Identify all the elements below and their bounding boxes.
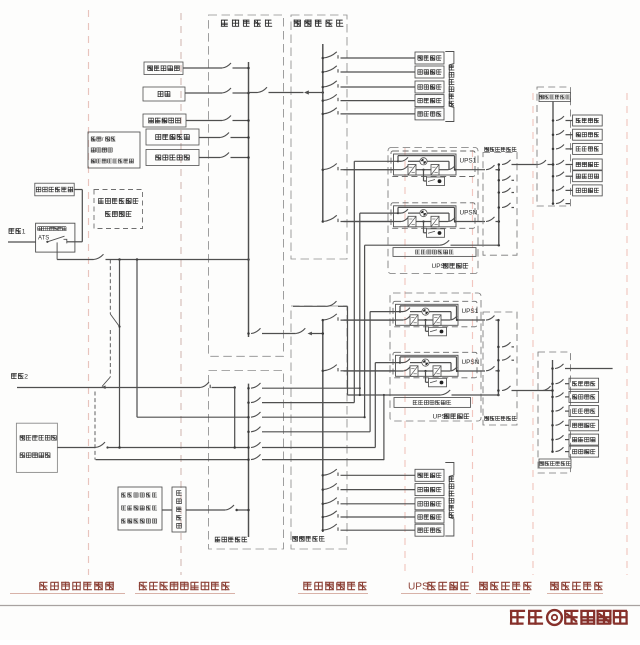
label LV cabinet bottom (215, 537, 247, 543)
wire LV row-447 parallel-box feed (57, 442, 375, 449)
UPS group lower dashed frame (390, 293, 481, 421)
zone underline (547, 593, 603, 595)
wire mains-1 into ATS (8, 241, 36, 243)
separator col7 (626, 93, 628, 575)
label vertical machine-room power upper (449, 65, 455, 107)
UPS U4 rectifier (344, 366, 419, 377)
branch sub-upper 5 (552, 172, 573, 178)
svg-text:UPSN: UPSN (460, 209, 478, 216)
wire runner R2 (359, 213, 361, 395)
svg-text:2: 2 (24, 373, 28, 380)
label ATS text (37, 226, 66, 241)
svg-text:UPS1: UPS1 (460, 158, 477, 165)
zone underline (135, 593, 235, 595)
load box lighting (143, 87, 185, 101)
UPS U4 inner box (396, 355, 459, 376)
wire LV row-402 to runner R1 (247, 397, 354, 403)
cabinet LV distribution upper (dashed) (209, 15, 284, 356)
spare breaker lower 2 (497, 356, 514, 362)
branch sub-lower 4 (551, 421, 569, 427)
breaker input-lower row 3 (322, 498, 415, 505)
zone underline (476, 593, 530, 595)
label output main upper (484, 147, 516, 152)
label output sub upper (boxed) (539, 93, 571, 102)
UPS U2 battery (424, 222, 445, 238)
label LV cabinet title top (221, 20, 272, 27)
load box lower 照明系统 (415, 484, 444, 496)
bus output main upper (498, 164, 500, 245)
ATS box (36, 223, 75, 252)
load box 其他用电 (415, 108, 444, 120)
load box lower 其他用电 (415, 524, 444, 536)
label output main lower (484, 416, 516, 421)
UPS U4 output breaker (441, 367, 485, 372)
cabinet input distribution lower (dashed) (291, 306, 347, 549)
cabinet output main lower (dashed) (483, 312, 517, 425)
UPS U3 rectifier (344, 315, 419, 326)
cabinet output main upper (dashed) (483, 153, 517, 256)
load box lower 空调系统 (415, 469, 444, 481)
bus LV cabinet upper (248, 62, 250, 337)
ATS switch (46, 236, 67, 259)
wire input-bus to UPS1 main (322, 164, 394, 171)
load box 主机用电 upper (573, 115, 603, 126)
UPS U2 inner box (394, 206, 457, 227)
label output sub lower (boxed) (539, 459, 571, 468)
load box 主机用电 lower (569, 378, 599, 389)
svg-text:UPS: UPS (408, 582, 429, 593)
watermark 头条@暖通南社 (510, 610, 628, 625)
branch sub-upper 2 (552, 130, 573, 136)
wire lower-bus to UPS1L main (322, 314, 396, 321)
branch sub-upper 6 (552, 186, 573, 192)
cabinet LV distribution lower (dashed) (209, 371, 284, 550)
wire LV row-431 to runner R4 (247, 427, 370, 433)
UPS U4 battery (426, 371, 447, 387)
wire mains-2 (17, 382, 236, 448)
zone 电源切换和低压配电 label2 (139, 582, 230, 591)
wire row ac-pump (183, 63, 250, 69)
svg-text:ATS: ATS (38, 236, 49, 242)
cabinet output sub upper (dashed) (537, 87, 571, 206)
spare breaker upper 1 (498, 176, 514, 182)
breaker input-lower row 2 (322, 483, 415, 490)
breaker input-upper row 3 (322, 81, 415, 88)
UPS unit U3 dashed frame (393, 301, 477, 327)
UPS U2 static switch (398, 209, 449, 221)
load box 应急照明 upper (573, 171, 603, 182)
bus input cabinet upper (322, 44, 324, 222)
load box 监控系统 lower (569, 420, 599, 431)
feed to sub-dist upper (498, 160, 538, 166)
note box broadcast/engineering (88, 132, 140, 168)
UPS unit U2 dashed frame (391, 203, 475, 229)
breaker input-upper row 1 (322, 52, 415, 59)
wire vertical V2 (137, 260, 249, 418)
breaker input-upper row 4 (322, 94, 415, 101)
branch sub-lower 1 (551, 379, 569, 385)
UPS unit U1 dashed frame (391, 151, 475, 177)
load box 照明系统 (415, 66, 444, 78)
wire LV row-417 (247, 412, 364, 418)
UPS U2 output breaker (439, 218, 485, 223)
load box 风机系统 (415, 95, 444, 107)
breaker input-upper row 2 (322, 66, 415, 73)
wire heater row (162, 505, 250, 511)
UPS U3 label (462, 308, 479, 315)
zone UPS电源系统 label (408, 582, 469, 593)
cabinet input distribution upper (dashed) (291, 15, 347, 259)
load box air conditioning & pumps (144, 62, 183, 75)
wire generator to ATS (67, 190, 82, 242)
separator col6 (532, 93, 534, 575)
wire dashed tie (102, 260, 121, 390)
zone 输出总配电 label (479, 582, 531, 591)
wire runner R4 (369, 312, 371, 432)
wire LV row-388 to runner R2 (247, 383, 361, 389)
branch sub-upper 4 (552, 160, 573, 166)
UPS U4 bypass input (375, 357, 456, 371)
footer rule line (0, 605, 640, 607)
wire lower-bus to UPSNL main (322, 365, 396, 372)
feed to sub-dist lower (497, 386, 552, 392)
box manual maintenance bypass lower (394, 398, 471, 408)
UPS U1 rectifier (344, 165, 417, 176)
wire row surge device (199, 153, 250, 159)
UPS U3 bypass input (370, 306, 456, 320)
wire lower feed with switch (293, 301, 348, 395)
load box genset switch panel (146, 129, 199, 145)
load box 终端用电 upper (573, 143, 603, 154)
note box heater harmonic loads (118, 487, 162, 530)
wire row emergency (186, 116, 250, 122)
UPS U3 static switch (400, 308, 451, 320)
spare breaker upper 2 (498, 188, 514, 194)
breaker UPS1L to bus (486, 316, 500, 322)
wire runner R5 (374, 363, 376, 448)
svg-text:1: 1 (22, 228, 26, 235)
branch sub-upper 3 (552, 145, 573, 151)
separator col3 (180, 13, 182, 575)
wire ATS output main (57, 254, 250, 260)
wire vertical V1 (119, 260, 121, 448)
breaker input-lower row 1 (322, 469, 415, 476)
label vertical machine-room power lower (449, 476, 455, 518)
branch sub-lower 6 (551, 447, 569, 453)
label UPS parallel system upper (432, 263, 469, 270)
UPS U1 bypass input (354, 156, 454, 170)
bus input cabinet lower (322, 319, 324, 532)
branch sub-lower 5 (551, 435, 569, 441)
long feeder right (551, 364, 612, 370)
branch sub-lower 2 (551, 393, 569, 399)
wire runner R6 (383, 394, 385, 460)
wire row genset panel (199, 133, 250, 139)
cabinet output sub lower (dashed) (538, 352, 571, 473)
branch sub-upper 1 (552, 116, 573, 122)
load box 监控系统 upper (573, 159, 603, 170)
wire LV to input-bus feed (249, 87, 325, 94)
box LV switching device (dashed) (94, 190, 143, 229)
svg-text:UPSN: UPSN (462, 359, 480, 366)
UPS U4 label (462, 359, 480, 366)
load box 空调系统 (415, 52, 444, 64)
load box 保安系统 lower (569, 446, 599, 457)
label mains-1 (9, 228, 26, 235)
parallel surge device box (16, 423, 57, 472)
label mains-2 (11, 373, 28, 380)
wire input-bus to UPSN main (322, 215, 394, 222)
zone 输出分配电 label (550, 582, 602, 591)
UPS U3 inner box (396, 304, 459, 325)
UPS U1 output breaker (439, 166, 485, 171)
generator set box (35, 183, 74, 196)
wire manual bypass lower (348, 390, 500, 396)
spare breaker upper 3 (498, 203, 514, 209)
wire row lighting (185, 88, 250, 94)
UPS U1 static switch (398, 157, 449, 169)
UPS U2 bypass input (360, 207, 455, 221)
UPS U2 inverter (416, 216, 439, 227)
wire LV feed to lower input bus (247, 328, 324, 335)
bus LV cabinet lower (248, 384, 250, 537)
UPS unit U4 dashed frame (393, 352, 477, 378)
branch sub-lower 3 (551, 407, 569, 413)
separator col4 (404, 148, 406, 575)
load box emergency loads (143, 114, 186, 127)
label parallel surge text (20, 435, 57, 458)
box manual maintenance bypass upper (393, 248, 476, 257)
breaker input-lower row 5 (322, 524, 415, 531)
UPS U2 label (460, 209, 478, 216)
breaker UPSN to bus (486, 217, 500, 223)
breaker input-upper row 5 (322, 108, 415, 115)
zone underline (298, 593, 368, 595)
zone underline (401, 593, 471, 595)
bus output main lower (497, 319, 499, 396)
UPS U3 battery (426, 320, 447, 336)
feed into sub-upper (538, 160, 554, 166)
wire manual bypass upper (365, 240, 500, 246)
UPS U3 inverter (418, 315, 441, 326)
UPS U1 battery (424, 170, 445, 186)
UPS U4 inverter (418, 366, 441, 377)
wire runner R1 (353, 161, 355, 402)
separator col2 (88, 10, 90, 575)
load box lower 风机系统 (415, 511, 444, 523)
load box 应急照明 lower (569, 434, 599, 445)
UPS U4 static switch (400, 359, 451, 371)
load box 终端用电 lower (569, 406, 599, 417)
label LV system switching text (98, 198, 138, 217)
load box 保安系统 upper (573, 185, 603, 196)
wire LV row-460 (247, 454, 384, 460)
zone underline (10, 593, 125, 595)
load box surge parameter device (146, 150, 199, 166)
UPS U2 rectifier (344, 216, 417, 227)
zone 机房输入配电 label (304, 582, 367, 591)
bus output sub upper (552, 102, 554, 205)
load box lower 维修系统 (415, 498, 444, 510)
svg-text:UPS1: UPS1 (462, 308, 479, 315)
label input cabinet lower bottom (292, 536, 324, 542)
separator col5 (472, 150, 474, 575)
UPS group upper dashed frame (388, 148, 478, 274)
bracket non-UPS loads upper (445, 52, 454, 122)
feed into sub-lower (543, 386, 554, 392)
bracket non-UPS loads lower (445, 463, 454, 537)
UPS U1 label (460, 158, 477, 165)
label input cabinet upper title (294, 20, 344, 27)
bus output sub lower (552, 360, 554, 452)
load box 外设用电 upper (573, 129, 603, 140)
breaker UPSNL to bus (486, 366, 500, 372)
spare breaker lower 1 (497, 342, 514, 348)
load box 外设用电 lower (569, 391, 599, 402)
load box 维修系统 (415, 81, 444, 93)
wire dashed standby tie lower (95, 392, 249, 460)
spare branch sub-upper (552, 199, 570, 205)
wire runner R3 (364, 245, 366, 418)
UPS U1 inner box (394, 154, 457, 175)
breaker input-lower row 4 (322, 511, 415, 518)
box power distribution panel (vertical) (172, 487, 186, 532)
UPS U3 output breaker (441, 316, 485, 321)
zone 电网和油机输入 label (39, 582, 114, 591)
UPS U1 inverter (416, 165, 439, 176)
breaker UPS1 to bus (486, 165, 500, 171)
label UPS parallel system lower (433, 413, 470, 420)
